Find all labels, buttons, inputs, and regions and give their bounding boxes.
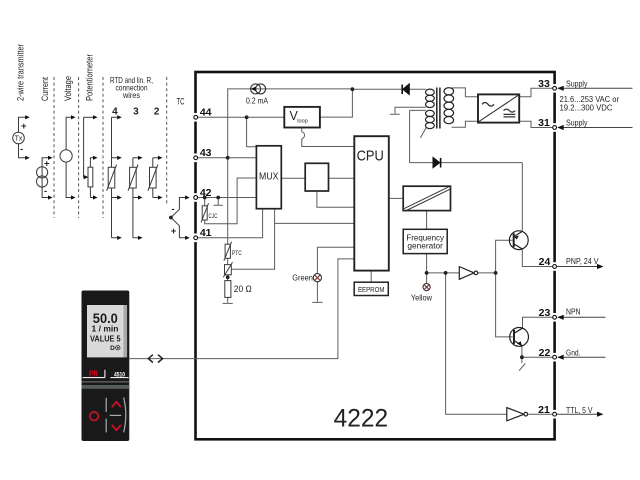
svg-text:Supply: Supply	[566, 78, 588, 88]
svg-text:+: +	[44, 159, 50, 170]
svg-text:EEPROM: EEPROM	[358, 285, 385, 294]
svg-text:19.2...300 VDC: 19.2...300 VDC	[560, 102, 613, 112]
svg-text:Supply: Supply	[566, 118, 588, 128]
svg-text:CJC: CJC	[209, 213, 218, 220]
svg-text:+: +	[171, 226, 177, 237]
svg-text:Voltage: Voltage	[63, 76, 74, 101]
svg-text:23: 23	[539, 307, 551, 319]
svg-text:+: +	[21, 121, 27, 132]
svg-text:Current: Current	[40, 77, 51, 101]
svg-text:PR: PR	[89, 369, 98, 378]
svg-text:24: 24	[539, 256, 551, 268]
svg-text:PNP, 24 V: PNP, 24 V	[566, 256, 599, 266]
svg-text:0.2 mA: 0.2 mA	[246, 96, 268, 105]
svg-text:-: -	[44, 186, 47, 197]
svg-text:3: 3	[133, 107, 139, 118]
svg-text:50.0: 50.0	[93, 311, 118, 326]
svg-text:D: D	[110, 345, 115, 352]
svg-text:Gnd.: Gnd.	[566, 347, 581, 357]
svg-text:22: 22	[539, 347, 551, 359]
svg-text:wires: wires	[122, 91, 140, 100]
svg-text:-: -	[172, 204, 175, 215]
svg-text:4222: 4222	[334, 406, 389, 433]
svg-text:1 / min: 1 / min	[92, 325, 119, 334]
svg-text:MUX: MUX	[259, 171, 279, 182]
svg-text:20 Ω: 20 Ω	[234, 284, 252, 294]
svg-text:2-wire transmitter: 2-wire transmitter	[16, 44, 27, 101]
svg-text:44: 44	[200, 107, 212, 119]
svg-text:Potentiometer: Potentiometer	[85, 54, 96, 101]
svg-text:TC: TC	[177, 97, 185, 108]
svg-text:41: 41	[200, 227, 212, 239]
svg-text:Green: Green	[292, 274, 313, 283]
svg-text:VALUE 5: VALUE 5	[90, 334, 121, 344]
svg-text:Yellow: Yellow	[411, 293, 432, 302]
svg-text:generator: generator	[407, 241, 443, 250]
svg-text:loop: loop	[297, 118, 308, 124]
svg-text:42: 42	[200, 187, 212, 199]
svg-text:33: 33	[538, 78, 550, 90]
svg-text:CPU: CPU	[357, 148, 384, 164]
svg-text:TTL, 5 V: TTL, 5 V	[566, 405, 593, 415]
svg-text:31: 31	[538, 117, 550, 129]
svg-text:4: 4	[112, 107, 118, 118]
svg-text:-: -	[20, 144, 23, 155]
svg-text:43: 43	[200, 147, 212, 159]
svg-text:2: 2	[154, 107, 160, 118]
svg-text:Tx: Tx	[15, 136, 23, 143]
svg-text:PTC: PTC	[232, 250, 242, 257]
svg-text:21: 21	[538, 404, 550, 416]
svg-text:NPN: NPN	[566, 306, 581, 316]
